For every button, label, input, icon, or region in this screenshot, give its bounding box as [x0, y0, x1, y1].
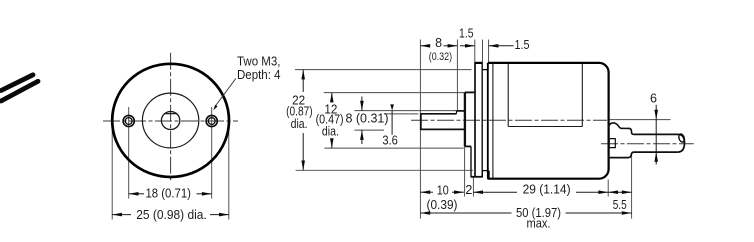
extension line 12-dim top (y 92.6) [324, 92, 465, 94]
right hole centerline / 18-dim right extension line [211, 107, 213, 199]
svg-text:max.: max. [527, 217, 551, 231]
svg-text:1.5: 1.5 [515, 38, 530, 52]
dimension 22 (0.87) dia. [286, 70, 313, 171]
extension line 22-dim bottom (y 170.3) [296, 169, 473, 171]
body rib line [492, 64, 494, 179]
svg-text:5.5: 5.5 [613, 198, 627, 212]
front view boss circle (12 dia) [142, 93, 198, 148]
svg-text:8: 8 [435, 36, 442, 50]
front view outer circle (25 dia flange) [112, 64, 229, 177]
body label panel [508, 64, 582, 127]
extension line shaft end (vertical at 420.4) [419, 40, 421, 219]
dimension 1.5 first (flange plate) [459, 27, 475, 48]
dimension 8 (0.31) shaft dia [346, 97, 389, 145]
svg-text:6: 6 [650, 92, 657, 106]
extension line 6-dim top (y 119.6) [610, 119, 671, 121]
leader line Two M3 [213, 79, 236, 111]
front view horizontal centerline [103, 120, 238, 122]
broken-off diagonal marks top-left [1, 75, 38, 101]
shaft bottom edge [421, 128, 465, 130]
svg-text:dia.: dia. [322, 125, 339, 139]
extension line flat end (vertical at 457.4) [456, 40, 458, 111]
extension line 29-dim right (body right below) [607, 180, 609, 197]
extension line 12-dim bottom (y 148.1) [324, 147, 463, 149]
svg-text:18 (0.71): 18 (0.71) [145, 186, 191, 200]
svg-text:3.6: 3.6 [382, 133, 398, 147]
collar top edge (full dia) [457, 110, 466, 112]
collar step vertical [456, 111, 458, 114]
left hole centerline / 18-dim left extension line [128, 107, 130, 199]
25-dim right extension line [228, 124, 230, 220]
flange plate [471, 63, 483, 177]
svg-text:Two M3,: Two M3, [237, 54, 281, 68]
extension line 50-dim right [631, 155, 633, 219]
extension line 8dia-dim top (y 110.6) [354, 110, 456, 112]
right mounting hole M3 [206, 115, 217, 126]
svg-text:2: 2 [465, 183, 472, 197]
dimension 3.6 (flat) [382, 104, 398, 147]
cable end ellipse [678, 133, 685, 142]
dimension 18 (0.71) [129, 186, 212, 200]
dimension 1.5 second (groove) [489, 38, 530, 52]
side view body centerline [411, 119, 607, 121]
front view vertical centerline [170, 53, 172, 182]
cable bushing base bottom [609, 152, 634, 158]
extension line plate right (vertical at 482.5) [482, 40, 484, 64]
boss block (2mm, 12 dia) [465, 92, 475, 176]
dimension 8 (0.32) top [420, 36, 457, 63]
svg-text:29 (1.14): 29 (1.14) [523, 183, 571, 197]
dimension 12 (0.47) dia. [316, 93, 344, 149]
extension line body left (vertical at 488.6) [488, 40, 490, 64]
svg-text:(0.39): (0.39) [427, 198, 458, 212]
svg-text:1.5: 1.5 [459, 27, 474, 41]
cable bushing hump and sleeve top [609, 123, 634, 135]
cable [633, 134, 684, 152]
svg-text:25 (0.98) dia.: 25 (0.98) dia. [136, 208, 207, 222]
svg-text:(0.32): (0.32) [429, 51, 452, 63]
dimension 5.5 [608, 190, 631, 212]
shaft end face [420, 113, 422, 130]
dimension 50 (1.97) max. [420, 206, 631, 231]
dimension 25 (0.98) dia. [112, 208, 229, 222]
shaft flat top edge [421, 113, 457, 115]
extension line 8dia-dim bottom (y 130.1) [354, 129, 384, 131]
svg-text:dia.: dia. [291, 117, 308, 131]
left mounting hole M3 [123, 115, 134, 126]
cable centerline [601, 143, 694, 145]
label Two M3 Depth 4 [237, 54, 281, 82]
extension line 22-dim top (y 69.6) [295, 69, 472, 71]
dimension 29 (1.14) [473, 183, 608, 197]
dimension 10 (0.39) [420, 183, 464, 212]
extension line 10-dim right (block left) [464, 147, 466, 197]
25-dim left extension line [111, 124, 113, 220]
body outline [475, 63, 609, 179]
svg-text:Depth: 4: Depth: 4 [237, 68, 281, 82]
svg-text:10: 10 [437, 183, 449, 197]
bushing detail square [609, 139, 615, 148]
svg-text:8 (0.31): 8 (0.31) [346, 111, 389, 125]
extension line shaft flat level (y 113.9) [384, 113, 419, 115]
extension line 2-dim right (plate left below) [472, 178, 474, 197]
dimension 6 (cable dia) [650, 92, 658, 165]
front view shaft circle with flat [161, 112, 179, 130]
extension line plate left (vertical at 474.8) [474, 40, 476, 64]
